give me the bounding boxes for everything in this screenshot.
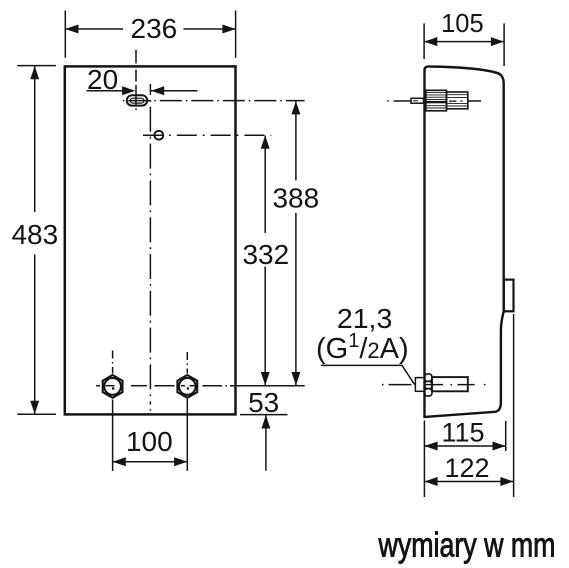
dimension 100 extension lines: [113, 399, 188, 471]
slot vertical centerline: [135, 50, 137, 110]
svg-text:20: 20: [87, 64, 118, 95]
bottom fitting nut lobes: [425, 374, 433, 396]
dimension 236 line: [65, 28, 235, 30]
dimension 122 right extension line: [513, 314, 515, 497]
svg-text:100: 100: [126, 426, 173, 457]
svg-text:105: 105: [441, 8, 484, 38]
svg-text:wymiary w mm: wymiary w mm: [378, 526, 556, 564]
fitting row centerline (53 upper extension): [96, 385, 305, 387]
right pipe fitting hex nut: [177, 375, 197, 398]
svg-text:483: 483: [11, 219, 58, 250]
dimension 483 extension lines: [17, 66, 56, 415]
mounting slot outer: [127, 95, 147, 105]
dimension 53 lower extension line: [240, 414, 288, 416]
hole circle: [154, 131, 163, 140]
left fitting vertical centerline: [112, 351, 114, 374]
right fitting vertical centerline: [186, 352, 188, 374]
side view outline with wall bracket: [425, 66, 504, 416]
right fitting center dot: [187, 387, 189, 389]
top fitting centerline: [387, 100, 481, 102]
dimension 20: [87, 90, 198, 92]
svg-text:332: 332: [242, 239, 289, 270]
top fitting pin: [411, 98, 424, 103]
svg-text:236: 236: [131, 13, 178, 44]
dimension 105 line: [424, 41, 504, 43]
svg-text:(G1/2A): (G1/2A): [316, 330, 409, 365]
main centerline end dot: [149, 409, 151, 411]
bottom fitting pipe: [432, 377, 468, 391]
dimension 483 line: [34, 66, 36, 414]
top fitting threaded block 1: [426, 90, 447, 111]
dimension 122 line: [424, 481, 513, 483]
bottom fitting centerline: [382, 384, 486, 386]
leader line for 21,3 label: [321, 365, 415, 384]
top fitting block 2 center dash: [449, 100, 463, 102]
slot horizontal centerline (388 extension): [123, 100, 305, 102]
left pipe fitting hex nut: [103, 375, 123, 398]
svg-text:388: 388: [272, 182, 319, 213]
dimension 115 line: [424, 445, 505, 447]
mounting slot inner: [130, 98, 144, 103]
dimension 115 right extension line: [505, 421, 507, 451]
dimension 100 line: [113, 461, 188, 463]
svg-text:21,3: 21,3: [337, 303, 393, 334]
dimension 236 extension lines: [65, 11, 235, 58]
main vertical centerline: [149, 84, 151, 405]
dimension 332 line: [264, 136, 266, 386]
front view body outline: [65, 66, 236, 414]
svg-text:122: 122: [444, 453, 489, 483]
top fitting threaded block 2: [447, 92, 468, 109]
top fitting pin tick: [413, 100, 418, 102]
hole centerline (332 extension): [143, 134, 271, 136]
wall mounting bracket: [504, 280, 514, 312]
left fitting center dot: [112, 387, 114, 389]
dimension 53 arrow line: [265, 415, 267, 471]
left shared extension line (115/122): [423, 421, 425, 498]
svg-text:53: 53: [248, 387, 279, 418]
svg-text:115: 115: [441, 417, 484, 447]
bottom fitting flange: [415, 378, 424, 392]
top fitting block 1 center band: [426, 101, 447, 103]
dimension 388 line: [295, 101, 297, 385]
dimension 105 extension lines: [424, 23, 504, 66]
